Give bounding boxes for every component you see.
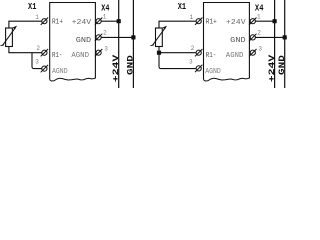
terminal X4:3 (left) — [95, 49, 102, 56]
PLC card outline (left) — [50, 3, 96, 82]
thermistor R (right) diagonal arrow — [150, 26, 167, 46]
wire: X4:1 to +24V bus (right) — [255, 20, 274, 22]
wire: jumper from row3 down to terminal 3 (left) — [32, 53, 42, 69]
GND bus line (right) — [284, 0, 286, 88]
thermistor R (left) body — [6, 28, 13, 47]
terminal X1:3 (left) — [41, 65, 48, 72]
terminal X1:3 (right) — [195, 65, 202, 72]
svg-text:3: 3 — [258, 46, 262, 53]
svg-text:X1: X1 — [28, 1, 37, 12]
wire: row3 branch to terminal 2 (right) — [159, 52, 196, 54]
svg-text:AGND: AGND — [52, 68, 68, 76]
thermistor R (right) body — [156, 28, 163, 47]
wire: X4:2 to GND bus (right) — [255, 36, 284, 38]
svg-text:+24V: +24V — [111, 54, 121, 83]
svg-text:3: 3 — [35, 58, 39, 65]
wire: resistor bottom stub to row3 (left) — [9, 47, 42, 53]
wire: resistor top stub to row1 (right) — [159, 21, 196, 28]
svg-text:R1-: R1- — [52, 52, 62, 60]
svg-text:2: 2 — [191, 45, 195, 52]
svg-text:R1+: R1+ — [206, 18, 217, 26]
svg-text:AGND: AGND — [205, 68, 221, 76]
svg-text:+24V: +24V — [226, 19, 247, 27]
svg-text:X4: X4 — [101, 2, 109, 13]
svg-text:+24V: +24V — [267, 54, 277, 83]
svg-text:X1: X1 — [178, 1, 187, 12]
svg-text:1: 1 — [257, 13, 261, 20]
terminal X1:2 (right) — [195, 49, 202, 56]
svg-text:2: 2 — [257, 29, 261, 36]
svg-text:GND: GND — [76, 37, 91, 45]
wire: resistor top stub to row1 (left) — [9, 21, 42, 28]
svg-text:2: 2 — [103, 29, 107, 36]
svg-text:AGND: AGND — [71, 52, 89, 60]
terminal X1:1 (left) — [41, 18, 48, 25]
svg-text:3: 3 — [189, 58, 193, 65]
+24V bus line (left) — [118, 0, 120, 88]
svg-text:GND: GND — [126, 55, 136, 75]
terminal X4:2 (right) — [249, 34, 256, 41]
terminal X1:2 (left) — [41, 49, 48, 56]
thermistor R (left) diagonal arrow — [1, 26, 18, 46]
svg-text:1: 1 — [189, 14, 193, 21]
svg-text:+24V: +24V — [72, 19, 93, 27]
svg-text:GND: GND — [230, 37, 245, 45]
svg-text:2: 2 — [36, 45, 40, 52]
terminal X4:1 (right) — [249, 18, 256, 25]
+24V bus line (right) — [274, 0, 276, 88]
svg-text:1: 1 — [35, 14, 39, 21]
junction dot GND (right) — [283, 35, 287, 39]
svg-text:AGND: AGND — [226, 52, 244, 60]
svg-text:R1+: R1+ — [52, 18, 63, 26]
wire: X4:1 to +24V bus (left) — [101, 20, 119, 22]
wire: X4:2 to GND bus (left) — [101, 36, 133, 38]
svg-text:R1-: R1- — [206, 52, 216, 60]
PLC card outline (right) — [204, 3, 250, 82]
terminal X4:2 (left) — [95, 34, 102, 41]
svg-text:GND: GND — [277, 55, 287, 75]
junction dot +24V (right) — [273, 19, 277, 23]
svg-text:1: 1 — [103, 13, 107, 20]
junction dot GND (left) — [131, 35, 135, 39]
terminal X4:3 (right) — [249, 49, 256, 56]
wire: resistor bottom drop to terminal 3 (right) — [159, 47, 196, 69]
terminal X4:1 (left) — [95, 18, 102, 25]
terminal X1:1 (right) — [195, 18, 202, 25]
junction dot +24V (left) — [117, 19, 121, 23]
junction dot at row3 tee (right) — [157, 51, 161, 55]
GND bus line (left) — [132, 0, 134, 88]
svg-text:3: 3 — [104, 46, 108, 53]
svg-text:X4: X4 — [255, 2, 264, 13]
